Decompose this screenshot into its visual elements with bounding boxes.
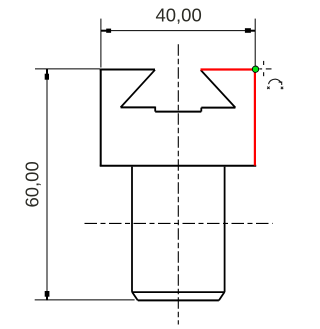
cursor crosshair left arm xyxy=(259,68,262,70)
notch center recess floor xyxy=(155,111,201,113)
notch right ledge xyxy=(201,107,235,109)
rotate-gesture right x mark xyxy=(281,87,283,89)
svg-text:60,00: 60,00 xyxy=(22,161,43,207)
rotate-gesture left x mark xyxy=(267,87,269,89)
dim 60,00 dimension line xyxy=(46,69,48,299)
part outline: head top-left edge xyxy=(100,69,155,71)
dim 40,00 right arrowhead xyxy=(245,28,251,33)
vertical centerline xyxy=(177,44,179,324)
notch right step xyxy=(200,108,202,112)
part outline: head left edge xyxy=(100,69,102,166)
dim 60,00 bottom extension line xyxy=(35,299,135,301)
shaft right edge xyxy=(224,167,226,292)
notch left ledge xyxy=(121,106,156,108)
selected line: head top-right edge (red) xyxy=(201,68,255,70)
sketch point (green vertex) xyxy=(252,66,258,72)
cursor crosshair bottom arm xyxy=(263,72,265,76)
head bottom edge xyxy=(100,165,257,167)
rotate-gesture arc xyxy=(269,79,282,84)
dim 40,00 left extension line xyxy=(100,19,102,68)
chamfer left diagonal xyxy=(132,292,138,301)
chamfer edge line xyxy=(132,291,225,293)
dim 40,00 right extension line xyxy=(254,19,256,66)
dim 60,00 bottom arrowhead xyxy=(45,291,50,297)
dim 40,00 dimension line xyxy=(101,30,254,32)
notch right diagonal xyxy=(201,70,236,108)
cursor crosshair top arm xyxy=(263,61,265,65)
chamfer right diagonal xyxy=(219,292,225,301)
rotate-gesture arrow bracket xyxy=(279,82,282,85)
shaft bottom edge xyxy=(138,299,219,301)
dim 60,00 top extension line xyxy=(35,68,100,70)
cursor crosshair right arm xyxy=(266,68,272,70)
notch left step xyxy=(154,107,156,112)
shaft left edge xyxy=(131,167,133,292)
dim 60,00 top arrowhead xyxy=(45,74,49,80)
svg-text:40,00: 40,00 xyxy=(155,4,201,25)
dim 40,00 left arrowhead xyxy=(106,29,111,33)
horizontal centerline xyxy=(85,222,273,224)
notch left diagonal xyxy=(121,70,155,108)
selected line: head right edge (red) xyxy=(254,69,256,166)
